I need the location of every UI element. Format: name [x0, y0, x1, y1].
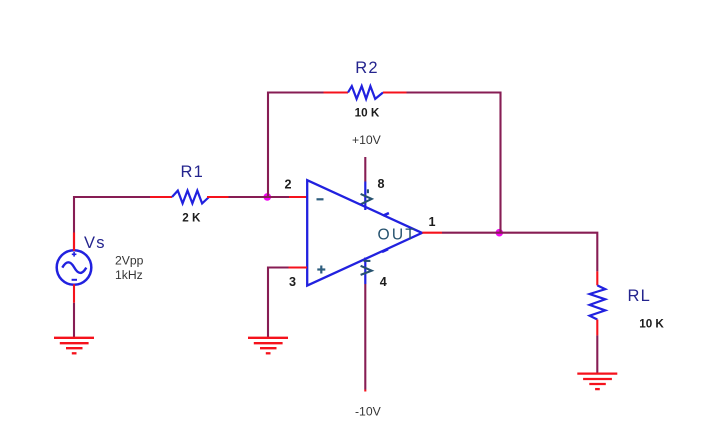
- tick on op-amp top edge: [383, 213, 389, 216]
- svg-text:-10V: -10V: [355, 405, 382, 419]
- wire: red lead right of R2: [383, 91, 407, 93]
- svg-text:RL: RL: [628, 287, 652, 305]
- op-amp minus input marker: [317, 198, 324, 200]
- svg-text:Vs: Vs: [84, 234, 106, 252]
- ground (middle, below pin 3): [248, 338, 288, 354]
- svg-text:1kHz: 1kHz: [115, 268, 143, 282]
- wire: pin 3 to middle ground (maroon): [268, 268, 289, 338]
- Vs plus polarity mark: [72, 252, 77, 257]
- junction node at R1 / feedback: [264, 193, 272, 201]
- svg-text:4: 4: [380, 275, 387, 289]
- wire: +10V supply wire (maroon): [364, 157, 366, 182]
- svg-text:+10V: +10V: [352, 133, 382, 147]
- wire: red lead from pin 3: [289, 266, 308, 268]
- wire: red lead below RL: [596, 320, 598, 336]
- wire: -10V supply wire (maroon): [364, 284, 366, 390]
- resistor RL: [590, 285, 606, 319]
- pin 4 lead (blue): [364, 258, 366, 285]
- pin 8 lead (blue): [364, 182, 366, 211]
- wire: feedback left vertical (R2 left leg down to junction): [268, 93, 324, 198]
- voltage source Vs circle: [57, 250, 92, 285]
- Vs sine wave: [62, 262, 86, 273]
- red tip at -10V wire end: [364, 390, 366, 392]
- svg-text:2: 2: [285, 178, 292, 192]
- resistor R1: [172, 191, 209, 204]
- svg-text:3: 3: [289, 275, 296, 289]
- power glyph pin 8: [361, 189, 372, 204]
- svg-text:8: 8: [378, 177, 385, 191]
- power glyph pin 4: [361, 261, 372, 275]
- svg-text:R1: R1: [181, 163, 205, 181]
- wire: red lead above Vs: [73, 233, 75, 251]
- wire: output net to RL (maroon): [442, 233, 597, 272]
- ground (left, below Vs): [54, 338, 94, 354]
- svg-text:10 K: 10 K: [639, 317, 664, 330]
- wire: feedback right vertical (R2 right leg down to output): [407, 93, 501, 233]
- Vs minus polarity mark: [72, 279, 77, 281]
- ground (right, below RL): [577, 374, 617, 390]
- svg-text:2Vpp: 2Vpp: [115, 253, 144, 267]
- wire: red lead right of R1: [207, 196, 229, 198]
- wire: red lead into op-amp pin 2: [289, 196, 307, 198]
- wire: red lead left of R2: [324, 91, 349, 93]
- svg-text:1: 1: [429, 215, 436, 229]
- svg-text:R2: R2: [355, 59, 379, 77]
- wire: red lead below Vs: [73, 284, 75, 303]
- wire: red lead above RL: [596, 271, 598, 285]
- wire: input net from Vs top to R1 and pin 2 (maroon segments): [74, 197, 289, 251]
- svg-text:2 K: 2 K: [182, 212, 201, 225]
- svg-text:10 K: 10 K: [355, 107, 380, 120]
- tick on op-amp bottom edge: [382, 249, 388, 252]
- wire: red lead at op-amp output: [422, 232, 442, 234]
- svg-text:OUT: OUT: [378, 226, 418, 243]
- wire: red lead left of R1: [150, 196, 172, 198]
- junction node at output / feedback: [496, 229, 504, 237]
- wire: RL bottom to right ground (maroon): [596, 335, 598, 373]
- resistor R2: [348, 86, 383, 99]
- op-amp U1 triangle: [307, 180, 422, 285]
- wire: Vs bottom to left ground (maroon): [73, 303, 75, 337]
- op-amp plus input marker: [317, 266, 325, 274]
